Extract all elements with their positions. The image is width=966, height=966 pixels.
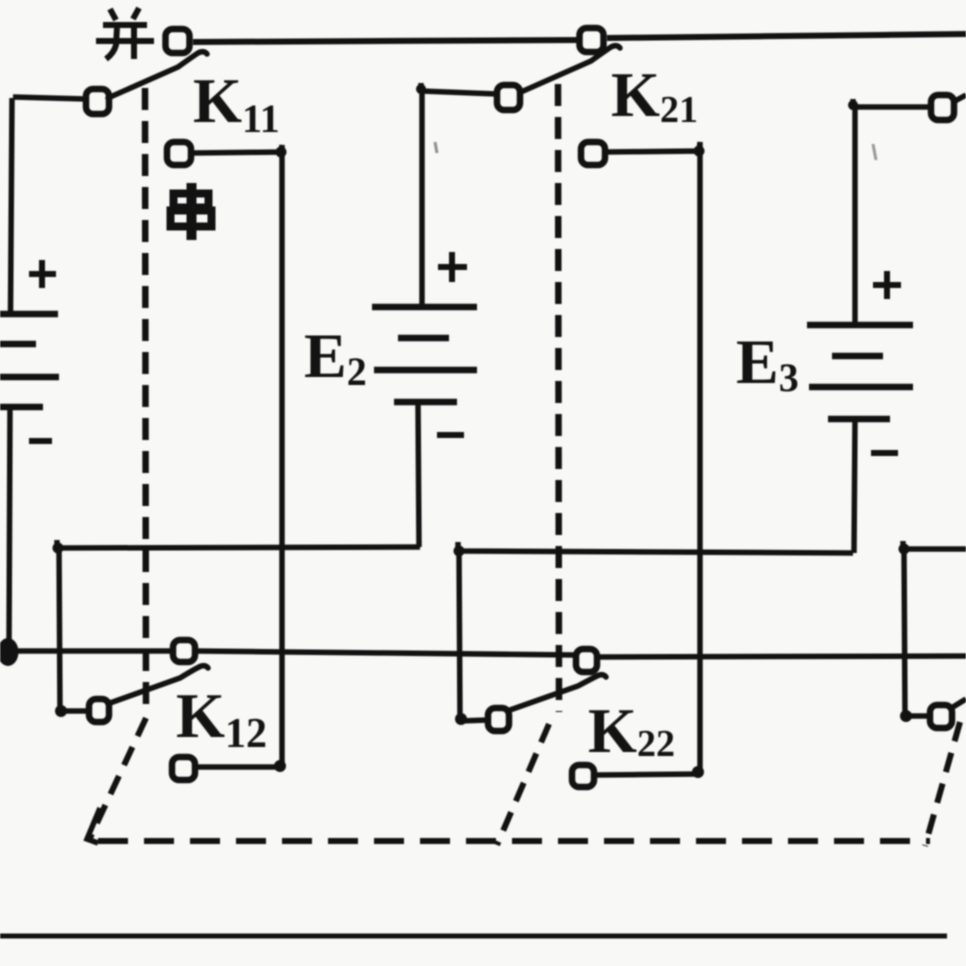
label 串 (series) (171, 183, 212, 240)
wire block2 pivot vertical (459, 551, 460, 719)
battery E2 plates (372, 307, 477, 402)
wire K32 pivot link (905, 713, 930, 719)
switch K12 blade (110, 666, 208, 703)
switch K11 series contact (167, 142, 191, 165)
svg-text:K11: K11 (193, 66, 280, 141)
linkage dashed bottom bar (98, 838, 930, 844)
node corner blob K22 pivot (455, 713, 467, 725)
switch K21 blade (521, 46, 620, 92)
battery E2 negative lead (418, 402, 419, 547)
switch K12 pivot contact (89, 699, 109, 722)
switch K31 blade (955, 95, 966, 101)
battery E1 positive lead (11, 98, 13, 314)
wire row2 right segment (903, 541, 966, 549)
node corner blob K32 pivot (900, 710, 912, 722)
node corner blob E2 top (416, 84, 426, 94)
svg-text:K22: K22 (588, 696, 675, 766)
label 并 (parallel) (96, 8, 154, 59)
battery E3 negative lead (854, 419, 855, 553)
switch K12 top contact (173, 640, 195, 662)
node corner blob K11 series (276, 147, 287, 158)
switch K22 pivot contact (488, 708, 509, 731)
node corner blob row2 right (899, 544, 910, 555)
wire K21 series contact link (606, 142, 700, 773)
battery E3 positive lead corner (853, 99, 931, 107)
svg-text:E3: E3 (736, 326, 799, 400)
node corner blob row2 middle (454, 546, 465, 557)
scan artifact mark 2 (435, 142, 437, 153)
battery E3 minus sign (871, 450, 898, 456)
battery E1 minus sign (29, 438, 52, 444)
switch K11 blade (108, 52, 207, 98)
switch K31 pivot contact (931, 95, 954, 120)
node corner blob K21 series (694, 146, 705, 157)
switch K22 bottom contact (572, 765, 594, 787)
node corner blob K12 bottom (274, 760, 286, 772)
linkage dashed vertical 1 (145, 88, 146, 714)
battery E1 negative lead (9, 407, 10, 647)
battery E3 plus sign (873, 271, 901, 299)
wire K11 series contact link (193, 145, 282, 767)
linkage dashed diagonal 2 (497, 724, 549, 845)
wire bus right segment (598, 656, 966, 657)
switch K12 bottom contact (172, 757, 195, 780)
wire row2 middle segment (458, 542, 853, 553)
switch K21 pivot contact (497, 85, 520, 110)
wire bus middle segment (196, 651, 577, 655)
wire block1 pivot vertical (59, 548, 60, 711)
switch K21 series contact (581, 142, 605, 165)
wire K12 bottom contact link (196, 764, 282, 770)
wire E3 top lead (852, 107, 858, 325)
wire E2 top lead (419, 91, 425, 307)
switch K11 top contact (parallel) (166, 29, 190, 53)
battery E1 plus sign (29, 260, 56, 288)
battery E2 minus sign (437, 432, 464, 438)
battery E2 positive lead corner (421, 83, 497, 94)
wire bottom rail (0, 934, 947, 939)
switch K21 top contact (580, 28, 604, 52)
node junction dot (0, 638, 19, 666)
node corner blob K12 pivot (55, 705, 67, 717)
linkage left tail (87, 808, 100, 843)
svg-text:K21: K21 (611, 60, 698, 131)
node corner blob row2 left (53, 543, 64, 554)
switch K22 top contact (576, 649, 597, 672)
switch K11 pivot contact (86, 89, 109, 114)
wire K22 pivot link (459, 720, 488, 721)
scan artifact mark 1 (873, 144, 876, 160)
svg-text:E2: E2 (304, 320, 367, 394)
battery E2 plus sign (438, 252, 467, 282)
switch K32 blade (953, 699, 966, 707)
svg-text:K12: K12 (176, 681, 267, 757)
linkage dashed diagonal 3 (925, 722, 960, 846)
linkage dashed vertical 2 (558, 84, 559, 712)
battery E1 plates (0, 314, 59, 407)
linkage dashed diagonal 1 (90, 718, 146, 838)
wire K12 pivot link (60, 708, 89, 714)
switch K32 pivot contact (930, 705, 952, 728)
wire bus left segment (13, 648, 174, 654)
wire row2 left segment (57, 540, 420, 548)
wire K11 pivot to E1 top (13, 97, 86, 99)
switch K22 blade (510, 675, 606, 710)
wire top rail left segment (193, 40, 581, 42)
wire K22 bottom contact link (595, 774, 700, 775)
wire block3 pivot vertical (904, 549, 905, 716)
node corner blob E3 top (848, 100, 858, 110)
battery E3 plates (807, 325, 913, 419)
wire top rail right segment (607, 34, 966, 38)
node corner blob K22 bottom (692, 766, 704, 778)
